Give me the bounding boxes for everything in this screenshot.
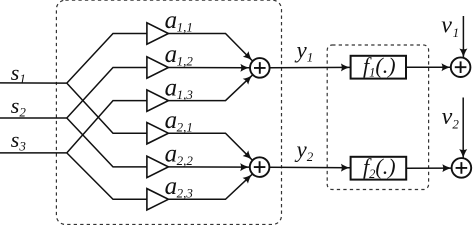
svg-text:y1: y1: [295, 38, 314, 65]
svg-text:1,3: 1,3: [177, 87, 194, 102]
function box f2: [351, 157, 407, 180]
amplifier a1,1: [147, 23, 169, 44]
wire s2 to a12: [67, 68, 147, 119]
svg-text:f1(.): f1(.): [363, 53, 396, 80]
svg-text:1: 1: [453, 25, 460, 40]
amplifier a2,1: [147, 123, 169, 144]
wire a22 to sum2: [168, 166, 249, 168]
svg-text:f2(.): f2(.): [363, 154, 396, 181]
summation sum1: [250, 58, 270, 78]
wire s1 to a11: [67, 34, 147, 84]
wire v1 to sum3: [462, 16, 464, 58]
svg-text:a: a: [165, 173, 178, 200]
wire s2: [0, 117, 67, 119]
svg-text:v: v: [442, 104, 453, 130]
wire sum2 to f2: [269, 166, 350, 169]
wire s3 to a13: [67, 101, 147, 153]
svg-text:1,1: 1,1: [177, 20, 193, 35]
svg-text:s2: s2: [11, 93, 27, 119]
function box f1: [351, 56, 406, 79]
summation sum2: [250, 157, 270, 177]
svg-text:a: a: [165, 141, 178, 168]
svg-text:1,2: 1,2: [177, 54, 194, 69]
wire a13 to sum1: [168, 75, 252, 100]
summation sum4: [452, 158, 472, 178]
wire a12 to sum1: [168, 67, 249, 69]
wire s3: [0, 152, 67, 154]
svg-text:2,3: 2,3: [177, 186, 194, 201]
wire s1 to a21: [67, 83, 147, 133]
dashed box: nonlinearity block: [327, 45, 428, 190]
svg-text:a: a: [165, 74, 178, 101]
wire s1: [0, 82, 67, 84]
wire f2 to sum4: [406, 167, 451, 169]
wire f1 to sum3: [406, 66, 451, 68]
amplifier a1,2: [147, 57, 169, 78]
svg-text:v: v: [441, 13, 452, 39]
amplifier a1,3: [147, 90, 169, 111]
wire s3 to a23: [67, 153, 147, 199]
svg-text:2,1: 2,1: [177, 119, 193, 134]
amplifier a2,2: [147, 156, 169, 177]
wire a21 to sum2: [168, 133, 252, 160]
wire v2 to sum4: [462, 98, 464, 159]
wire s2 to a22: [67, 118, 147, 167]
svg-text:y2: y2: [295, 137, 314, 164]
svg-text:2,2: 2,2: [177, 153, 194, 168]
amplifier a2,3: [147, 189, 169, 210]
svg-text:2: 2: [452, 116, 459, 131]
svg-text:a: a: [165, 7, 178, 34]
wire sum1 to f1: [270, 66, 351, 68]
dashed box: linear mixing system: [56, 0, 281, 224]
wire a11 to sum1: [168, 34, 252, 61]
summation sum3: [451, 57, 471, 77]
svg-text:a: a: [165, 107, 178, 134]
svg-text:a: a: [165, 41, 178, 68]
wire a23 to sum2: [168, 174, 252, 199]
svg-text:s3: s3: [11, 127, 27, 153]
